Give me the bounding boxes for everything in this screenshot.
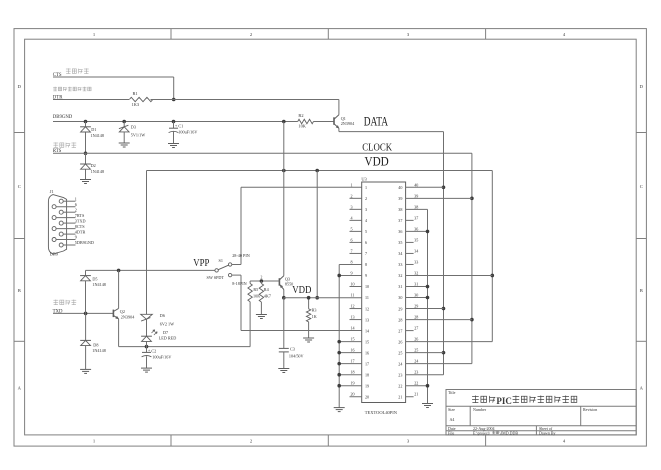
sheet title text (Chinese) + PIC — [472, 395, 479, 397]
svg-text:C: C — [18, 184, 21, 189]
ground left bus — [334, 407, 345, 409]
svg-text:LED RED: LED RED — [159, 335, 177, 340]
svg-text:3TXD: 3TXD — [75, 218, 86, 223]
wire U3 pin 6 stub — [350, 241, 362, 243]
svg-text:\JMD.DDB: \JMD.DDB — [500, 430, 519, 435]
svg-text:12: 12 — [365, 306, 369, 311]
wire VDD to D6 — [146, 171, 148, 315]
junction C1 top — [172, 120, 176, 124]
svg-text:Size: Size — [448, 407, 455, 412]
transistor Q2 — [112, 310, 114, 318]
wire U3 pin 21 stub — [406, 396, 414, 398]
net label DTR hint (Chinese) — [53, 86, 57, 88]
junction CTS-DTR — [172, 98, 176, 102]
wire U3 pin 17 to ground bus — [339, 363, 362, 365]
wire U3 pin 16 to ground bus — [339, 352, 362, 354]
svg-text:2N3904: 2N3904 — [341, 121, 355, 126]
wire VDD net to C3 — [283, 298, 285, 349]
wire U3 pin 23 to DATA bus — [406, 374, 444, 376]
wire Q3 emitter down — [283, 290, 285, 298]
svg-text:1: 1 — [351, 182, 353, 187]
svg-text:R1: R1 — [133, 91, 138, 96]
wire DTR left — [53, 99, 129, 101]
svg-text:S1: S1 — [219, 258, 223, 263]
svg-text:10K: 10K — [298, 124, 306, 129]
wire pin1 VPP 28-40 — [241, 186, 362, 188]
wire U3 pin 9 to ground bus — [339, 274, 362, 276]
svg-text:17: 17 — [351, 359, 355, 364]
junction DATA pin25 — [442, 351, 446, 355]
junction R3 top — [307, 296, 311, 300]
connector J1 pin 7 — [52, 216, 56, 220]
wire U3 pin 31 to ground bus A — [406, 286, 428, 288]
wire U3 pin 39 to CLOCK bus — [406, 197, 472, 199]
wire Q2 collector — [118, 270, 120, 308]
svg-text:39: 39 — [414, 193, 418, 198]
wire U3 pin 33 stub — [406, 263, 414, 265]
junction CLOCK pin28 — [470, 318, 474, 322]
connector J1 pin 2 — [59, 210, 63, 214]
svg-text:9: 9 — [75, 235, 77, 240]
svg-text:6: 6 — [365, 240, 367, 245]
connector J1 pin 4 — [59, 232, 63, 236]
junction VPP Q2 collector — [117, 269, 121, 273]
svg-text:C: C — [640, 184, 643, 189]
svg-text:D5: D5 — [92, 276, 97, 281]
wire VDD bus right — [491, 171, 493, 342]
svg-text:31: 31 — [414, 282, 418, 287]
svg-text:16: 16 — [351, 348, 355, 353]
junction D3 top — [122, 120, 126, 124]
ground under R3 — [303, 337, 314, 339]
wire U3 pin 25 to DATA bus — [406, 352, 444, 354]
wire U3 pin 22 to ground bus A — [406, 385, 428, 387]
wire U3 pin 35 stub — [406, 241, 414, 243]
svg-text:24: 24 — [398, 361, 402, 366]
svg-text:19: 19 — [351, 381, 355, 386]
svg-text:D3: D3 — [131, 124, 136, 129]
svg-text:35: 35 — [398, 240, 402, 245]
svg-text:5V1/1W: 5V1/1W — [131, 133, 145, 138]
resistor R5 — [248, 284, 252, 302]
svg-text:CLOCK: CLOCK — [362, 142, 392, 153]
svg-text:4: 4 — [351, 215, 353, 220]
resistor R1 — [129, 97, 153, 101]
svg-text:2: 2 — [351, 193, 353, 198]
svg-text:7: 7 — [351, 248, 353, 253]
svg-text:27: 27 — [414, 326, 418, 331]
svg-text:10: 10 — [351, 282, 355, 287]
wire R4 top lead — [260, 281, 262, 284]
junction VDD net left — [282, 296, 286, 300]
svg-text:29: 29 — [398, 306, 402, 311]
svg-text:36: 36 — [398, 229, 402, 234]
wire U3 pin 24 to CLOCK bus — [406, 363, 472, 365]
wire U3 pin 3 stub — [350, 208, 362, 210]
junction VDD pin32 — [491, 274, 495, 278]
svg-text:28: 28 — [414, 315, 418, 320]
junction bus A pin 36 — [426, 230, 430, 234]
svg-text:8-18PIN: 8-18PIN — [232, 281, 246, 286]
wire U3 pin 15 to ground bus — [339, 341, 362, 343]
svg-text:11: 11 — [365, 295, 369, 300]
frame row ticks — [14, 132, 25, 134]
svg-text:A4: A4 — [450, 417, 455, 422]
diode D8 — [85, 313, 87, 340]
connector J1 pin 1 — [59, 199, 63, 203]
wire Q1 emitter to DATA — [338, 128, 340, 131]
svg-text:C2: C2 — [151, 348, 156, 353]
wire U3 pin 36 to ground bus A — [406, 230, 428, 232]
wire VDD net — [284, 297, 362, 299]
svg-text:33: 33 — [414, 259, 418, 264]
svg-text:21: 21 — [398, 394, 402, 399]
svg-text:40: 40 — [414, 182, 418, 187]
svg-text:28-40 PIN: 28-40 PIN — [232, 253, 250, 258]
svg-text:TEXTOOL40PIN: TEXTOOL40PIN — [365, 410, 398, 415]
svg-text:2: 2 — [365, 196, 367, 201]
svg-text:SW SPDT: SW SPDT — [207, 275, 225, 280]
svg-text:29: 29 — [414, 304, 418, 309]
svg-text:3: 3 — [365, 207, 367, 212]
junction left bus pin 15 — [337, 340, 341, 344]
wire U3 pin 29 to DATA bus — [406, 308, 444, 310]
svg-text:11: 11 — [351, 293, 355, 298]
svg-text:22: 22 — [414, 381, 418, 386]
svg-text:D6: D6 — [160, 313, 165, 318]
svg-text:1: 1 — [365, 185, 367, 190]
wire throw2 — [232, 274, 241, 276]
svg-text:31: 31 — [398, 284, 402, 289]
svg-text:1: 1 — [75, 196, 77, 201]
junction bus A pin 22 — [426, 384, 430, 388]
svg-text:100uF/16V: 100uF/16V — [152, 354, 171, 359]
wire U3 pin 40 to DATA bus — [406, 186, 444, 188]
diode D1 — [85, 122, 87, 127]
svg-text:30: 30 — [398, 295, 402, 300]
ground under D8 — [80, 368, 91, 370]
wire U3 pin 26 to VDD bus — [406, 341, 493, 343]
svg-text:4: 4 — [365, 218, 367, 223]
svg-text:37: 37 — [398, 218, 402, 223]
wire U3 pin 27 stub — [406, 330, 414, 332]
transistor Q3 — [278, 278, 280, 286]
wire VDD riser — [316, 171, 318, 298]
wire DB9GND rail — [53, 121, 298, 123]
svg-text:30: 30 — [414, 293, 418, 298]
wire DB9GND to Q3 — [283, 122, 285, 276]
svg-text:37: 37 — [414, 215, 418, 220]
wire left ground bus — [338, 264, 340, 407]
junction VDD riser bottom — [315, 296, 319, 300]
svg-text:32: 32 — [398, 273, 402, 278]
svg-text:VDD: VDD — [365, 154, 389, 168]
svg-text:23: 23 — [414, 370, 418, 375]
svg-text:21: 21 — [414, 392, 418, 397]
ground right bus A — [422, 403, 433, 405]
wire throw1 — [232, 264, 241, 266]
svg-text:D8: D8 — [93, 342, 98, 347]
svg-text:27: 27 — [398, 328, 402, 333]
svg-text:1N4148: 1N4148 — [92, 348, 106, 353]
diode D2 — [85, 153, 87, 164]
svg-text:PIC: PIC — [496, 397, 512, 407]
svg-text:23: 23 — [398, 372, 402, 377]
wire VDD top — [147, 170, 493, 172]
svg-text:9: 9 — [365, 273, 367, 278]
junction TXD diodes — [84, 312, 88, 316]
ground under D3 — [119, 142, 130, 144]
wire right ground bus A — [427, 209, 429, 403]
node 2 wire — [250, 280, 279, 282]
led D7 — [146, 319, 148, 336]
wire U3 pin 28 to CLOCK bus — [406, 319, 472, 321]
svg-text:7RTS: 7RTS — [75, 213, 85, 218]
ground under R4 — [256, 314, 267, 316]
svg-text:R2: R2 — [298, 113, 303, 118]
net label CTS hint (Chinese) — [66, 68, 71, 70]
junction bus A pin 31 — [426, 285, 430, 289]
wire pin14 VPP 8-18 — [241, 330, 362, 332]
svg-text:100uF/16V: 100uF/16V — [178, 130, 197, 135]
svg-text:5: 5 — [365, 229, 367, 234]
svg-text:1N4148: 1N4148 — [91, 133, 105, 138]
wire R5 bottom to rail — [249, 302, 251, 347]
capacitor C3 — [279, 347, 289, 349]
capacitor C1 — [173, 122, 175, 129]
svg-text:File: File — [448, 430, 454, 435]
svg-text:Drawn By: Drawn By — [539, 430, 556, 435]
svg-text:18: 18 — [351, 370, 355, 375]
svg-text:16: 16 — [365, 350, 369, 355]
wire DATA bus — [443, 132, 445, 375]
wire DTR right — [151, 99, 339, 101]
ground under C3 — [278, 368, 289, 370]
wire R4 bottom lead — [260, 302, 262, 315]
svg-text:19: 19 — [365, 383, 369, 388]
switch S1 — [215, 269, 218, 272]
svg-text:6: 6 — [351, 237, 353, 242]
wire RTS / CLOCK line — [53, 152, 472, 154]
title block box — [446, 390, 636, 435]
net label RTS hint (Chinese) — [53, 142, 58, 144]
connector J1 pin 3 — [59, 221, 63, 225]
svg-text:20: 20 — [351, 392, 355, 397]
svg-text:34: 34 — [398, 251, 402, 256]
svg-text:E:\project\: E:\project\ — [473, 430, 491, 435]
wire CLOCK bus drop — [471, 153, 473, 363]
junction CLOCK pin39 — [470, 197, 474, 201]
svg-text:1N4148: 1N4148 — [92, 282, 106, 287]
svg-text:36: 36 — [414, 226, 418, 231]
wire LED rail — [119, 346, 251, 348]
resistor R3 leads — [308, 298, 310, 309]
border frame inner — [25, 39, 637, 435]
svg-text:8CTS: 8CTS — [75, 224, 85, 229]
svg-text:J1: J1 — [50, 189, 54, 194]
svg-text:7: 7 — [365, 251, 367, 256]
svg-text:17: 17 — [365, 361, 369, 366]
svg-text:2N3904: 2N3904 — [121, 315, 135, 320]
svg-text:4K7: 4K7 — [264, 293, 271, 298]
wire U3 pin 7 stub — [350, 252, 362, 254]
wire Q2 emitter drop — [118, 319, 120, 347]
svg-text:5DB9GND: 5DB9GND — [75, 240, 94, 245]
svg-text:VDD: VDD — [292, 285, 311, 296]
svg-text:D7: D7 — [163, 330, 168, 335]
connector J1 pin 5 — [59, 243, 63, 247]
wire U3 pin 18 to ground bus — [339, 374, 362, 376]
connector J1 pin 9 — [52, 238, 56, 242]
svg-text:6V2 1W: 6V2 1W — [160, 321, 174, 326]
wire DTR to Q1 collector — [338, 100, 340, 115]
wire U3 pin 5 stub — [350, 230, 362, 232]
wire U3 pin 4 stub — [350, 219, 362, 221]
svg-text:VPP: VPP — [193, 258, 209, 269]
zener D6 — [141, 314, 153, 319]
svg-text:15: 15 — [365, 339, 369, 344]
wire U3 pin 38 to ground bus A — [406, 208, 428, 210]
title block column lines — [469, 406, 471, 426]
svg-text:22: 22 — [398, 383, 402, 388]
svg-text:B: B — [640, 288, 643, 293]
wire U3 pin 30 to ground bus A — [406, 297, 428, 299]
title block row lines — [446, 405, 636, 407]
svg-text:14: 14 — [365, 328, 369, 333]
svg-text:R3: R3 — [312, 308, 317, 313]
svg-text:D1: D1 — [91, 127, 96, 132]
svg-text:14: 14 — [351, 326, 355, 331]
svg-text:8: 8 — [365, 262, 367, 267]
svg-text:C1: C1 — [178, 123, 183, 128]
zener D3 — [123, 122, 125, 127]
svg-text:DATA: DATA — [364, 114, 388, 128]
junction D1 top — [84, 120, 88, 124]
junction Q3 feed — [282, 120, 286, 124]
svg-text:5: 5 — [351, 226, 353, 231]
junction rail D7/C2 — [145, 345, 149, 349]
svg-text:6: 6 — [75, 202, 77, 207]
junction VDD-riser — [315, 169, 319, 173]
ground under C2 — [141, 367, 152, 369]
svg-text:2: 2 — [75, 207, 77, 212]
junction node2 R4 — [260, 279, 264, 283]
svg-text:2: 2 — [261, 276, 263, 280]
svg-text:104/50V: 104/50V — [289, 353, 304, 358]
ground under C1 — [168, 143, 179, 145]
wire U3 pin 19 to ground bus — [339, 385, 362, 387]
svg-text:13: 13 — [351, 315, 355, 320]
svg-text:1K3: 1K3 — [132, 102, 140, 107]
svg-text:38: 38 — [414, 204, 418, 209]
svg-text:12: 12 — [351, 304, 355, 309]
svg-text:15: 15 — [351, 337, 355, 342]
svg-text:Revision: Revision — [583, 407, 597, 412]
wire CTS drop to DTR — [173, 77, 175, 100]
svg-text:25: 25 — [398, 350, 402, 355]
svg-text:U3: U3 — [361, 177, 367, 182]
wire U3 pin 10 stub — [350, 286, 362, 288]
wire switch throw1 riser — [240, 187, 242, 264]
wire U3 pin 32 to VDD bus — [406, 274, 493, 276]
wire VPP — [86, 269, 215, 271]
svg-text:D2: D2 — [91, 163, 96, 168]
svg-text:3: 3 — [351, 204, 353, 209]
svg-text:1K: 1K — [312, 314, 317, 319]
connector J1 DB9 shell — [48, 195, 66, 254]
wire U3 pin 34 stub — [406, 252, 414, 254]
junction left bus pin 9 — [337, 274, 341, 278]
junction left bus pin 17 — [337, 362, 341, 366]
svg-text:9: 9 — [351, 270, 353, 275]
svg-text:26: 26 — [398, 339, 402, 344]
junction RTS-D1 — [84, 152, 88, 156]
svg-text:20: 20 — [365, 394, 369, 399]
wire R5 top lead — [249, 281, 251, 284]
junction left bus pin 18 — [337, 373, 341, 377]
svg-text:32: 32 — [414, 270, 418, 275]
wire CTS — [53, 76, 174, 78]
net label TXD hint (Chinese) — [53, 299, 58, 301]
resistor R3 — [306, 309, 310, 322]
capacitor C2 — [142, 351, 151, 353]
svg-text:Number: Number — [473, 407, 487, 412]
svg-text:C3: C3 — [290, 347, 295, 352]
transistor Q1 — [333, 117, 335, 125]
wire U3 pin 2 stub — [350, 197, 362, 199]
svg-text:18: 18 — [365, 372, 369, 377]
svg-text:24: 24 — [414, 359, 418, 364]
wire switch throw2 drop — [240, 275, 242, 330]
resistor R4 — [259, 284, 263, 303]
svg-text:10: 10 — [365, 284, 369, 289]
svg-text:35: 35 — [414, 237, 418, 242]
wire DATA — [339, 131, 444, 133]
svg-text:38: 38 — [398, 207, 402, 212]
wire U3 pin 20 stub — [350, 396, 362, 398]
junction VDD-Q3 feed — [282, 169, 286, 173]
svg-text:39: 39 — [398, 196, 402, 201]
svg-text:B: B — [18, 288, 21, 293]
junction DATA pin40 — [442, 186, 446, 190]
svg-text:28: 28 — [398, 317, 402, 322]
svg-text:25: 25 — [414, 348, 418, 353]
svg-text:40: 40 — [398, 185, 402, 190]
svg-text:1N4148: 1N4148 — [91, 169, 105, 174]
frame column ticks — [170, 29, 172, 40]
socket U3 body — [362, 182, 406, 403]
junction left bus pin 19 — [337, 384, 341, 388]
ground under D2 — [80, 179, 91, 181]
wire U3 pin 13 stub — [350, 319, 362, 321]
svg-text:Title: Title — [448, 390, 456, 395]
wire U3 pin 37 stub — [406, 219, 414, 221]
svg-text:34: 34 — [414, 248, 418, 253]
svg-text:Q2: Q2 — [120, 309, 125, 314]
junction DATA pin29 — [442, 307, 446, 311]
svg-text:DB9: DB9 — [50, 251, 59, 256]
connector J1 pin 6 — [52, 205, 56, 209]
svg-text:DB9GND: DB9GND — [53, 115, 73, 120]
svg-text:33: 33 — [398, 262, 402, 267]
diode D5 — [85, 270, 87, 275]
svg-text:R5: R5 — [253, 287, 258, 292]
svg-text:26: 26 — [414, 337, 418, 342]
wire U3 pin 12 stub — [350, 308, 362, 310]
svg-text:13: 13 — [365, 317, 369, 322]
wire U3 pin 8 to ground bus — [339, 263, 362, 265]
svg-text:8: 8 — [351, 259, 353, 264]
